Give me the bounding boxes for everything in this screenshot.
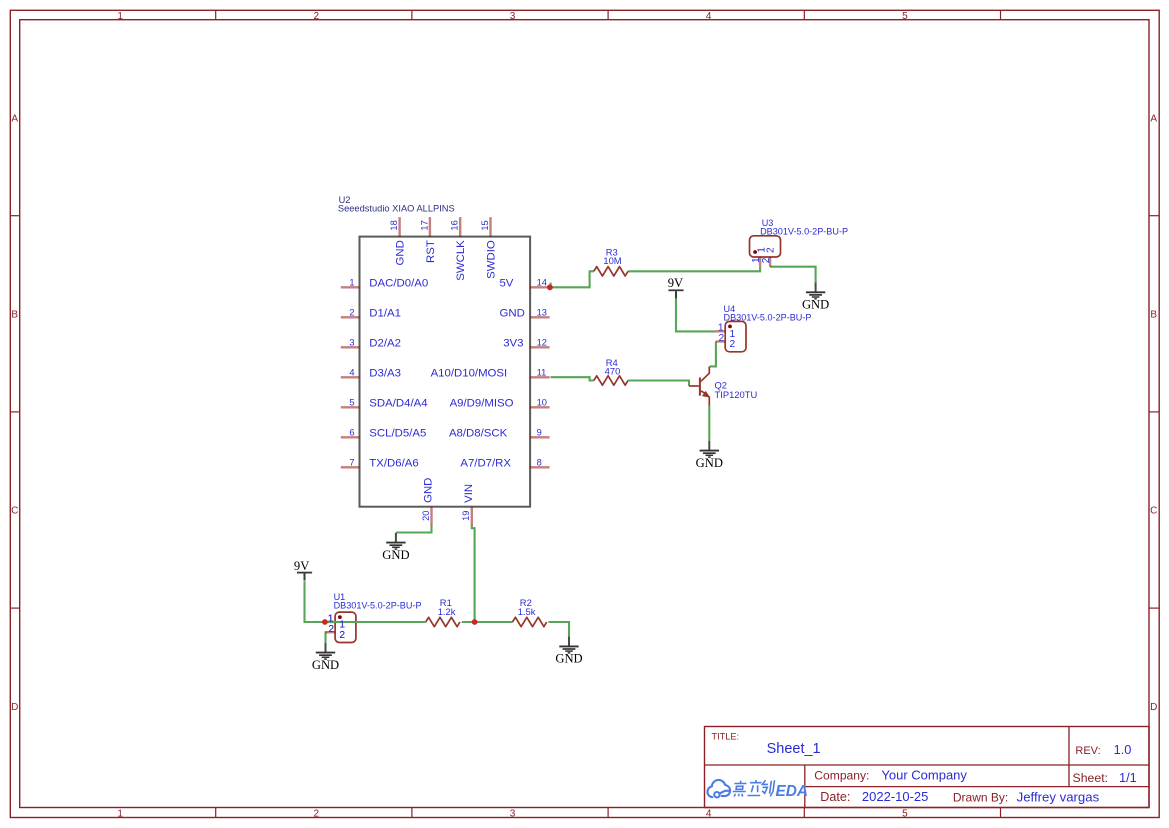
svg-text:Jeffrey vargas: Jeffrey vargas xyxy=(1017,789,1100,804)
svg-text:2: 2 xyxy=(314,11,320,22)
svg-text:4: 4 xyxy=(349,368,354,378)
svg-text:6: 6 xyxy=(349,428,354,438)
svg-text:A8/D8/SCK: A8/D8/SCK xyxy=(449,428,508,440)
svg-text:RST: RST xyxy=(425,240,437,263)
svg-text:11: 11 xyxy=(537,368,547,378)
svg-text:16: 16 xyxy=(450,220,460,230)
svg-text:5: 5 xyxy=(902,809,908,820)
svg-text:1: 1 xyxy=(117,809,123,820)
svg-text:10: 10 xyxy=(537,398,547,408)
svg-text:SDA/D4/A4: SDA/D4/A4 xyxy=(369,398,427,410)
svg-text:2022-10-25: 2022-10-25 xyxy=(862,789,929,804)
svg-text:Your Company: Your Company xyxy=(881,768,967,783)
svg-text:1.2k: 1.2k xyxy=(438,606,456,617)
svg-text:9: 9 xyxy=(537,428,542,438)
svg-text:3: 3 xyxy=(510,11,516,22)
svg-text:8: 8 xyxy=(537,458,542,468)
svg-text:Drawn By:: Drawn By: xyxy=(953,790,1008,804)
svg-text:SCL/D5/A5: SCL/D5/A5 xyxy=(369,428,426,440)
svg-text:TIP120TU: TIP120TU xyxy=(715,389,758,400)
svg-text:DB301V-5.0-2P-BU-P: DB301V-5.0-2P-BU-P xyxy=(760,227,848,237)
svg-text:3: 3 xyxy=(510,809,516,820)
svg-text:SWDIO: SWDIO xyxy=(485,240,497,279)
svg-text:VIN: VIN xyxy=(463,484,475,503)
svg-text:TX/D6/A6: TX/D6/A6 xyxy=(369,458,418,470)
svg-text:9V: 9V xyxy=(668,276,683,290)
svg-text:2: 2 xyxy=(761,257,772,263)
svg-text:B: B xyxy=(1150,310,1157,321)
svg-text:DAC/D0/A0: DAC/D0/A0 xyxy=(369,278,428,290)
svg-text:REV:: REV: xyxy=(1075,745,1100,757)
svg-text:A: A xyxy=(1150,113,1157,124)
svg-text:3: 3 xyxy=(349,338,354,348)
svg-text:5: 5 xyxy=(902,11,908,22)
svg-text:1: 1 xyxy=(349,278,354,288)
svg-text:18: 18 xyxy=(389,220,399,230)
svg-text:DB301V-5.0-2P-BU-P: DB301V-5.0-2P-BU-P xyxy=(334,601,422,611)
svg-text:A: A xyxy=(11,113,18,124)
svg-text:1/1: 1/1 xyxy=(1119,770,1137,785)
svg-text:20: 20 xyxy=(421,511,431,521)
svg-text:1: 1 xyxy=(117,11,123,22)
svg-text:Company:: Company: xyxy=(814,769,869,783)
svg-text:10M: 10M xyxy=(603,255,621,266)
svg-text:13: 13 xyxy=(537,308,547,318)
svg-text:SWCLK: SWCLK xyxy=(455,240,467,281)
svg-text:Seeedstudio XIAO ALLPINS: Seeedstudio XIAO ALLPINS xyxy=(338,203,455,213)
svg-text:TITLE:: TITLE: xyxy=(712,732,740,742)
svg-text:D: D xyxy=(11,702,18,713)
svg-text:1.0: 1.0 xyxy=(1114,742,1132,757)
svg-text:9V: 9V xyxy=(294,559,309,573)
svg-text:D1/A1: D1/A1 xyxy=(369,308,401,320)
svg-text:17: 17 xyxy=(419,220,429,230)
svg-text:19: 19 xyxy=(461,511,471,521)
svg-text:EDA: EDA xyxy=(776,783,809,800)
svg-text:2: 2 xyxy=(314,809,320,820)
svg-text:GND: GND xyxy=(395,240,407,265)
svg-text:Sheet_1: Sheet_1 xyxy=(767,741,821,757)
svg-text:DB301V-5.0-2P-BU-P: DB301V-5.0-2P-BU-P xyxy=(724,312,812,322)
svg-text:2: 2 xyxy=(328,624,334,635)
svg-text:2: 2 xyxy=(349,308,354,318)
svg-text:D2/A2: D2/A2 xyxy=(369,338,401,350)
svg-text:5V: 5V xyxy=(499,278,513,290)
svg-text:470: 470 xyxy=(605,365,621,376)
svg-text:12: 12 xyxy=(537,338,547,348)
svg-text:1: 1 xyxy=(328,613,334,624)
svg-text:4: 4 xyxy=(706,11,712,22)
svg-text:3V3: 3V3 xyxy=(503,338,523,350)
svg-text:A7/D7/RX: A7/D7/RX xyxy=(460,458,511,470)
svg-text:7: 7 xyxy=(349,458,354,468)
svg-text:1.5k: 1.5k xyxy=(518,606,536,617)
svg-text:5: 5 xyxy=(349,398,354,408)
svg-text:15: 15 xyxy=(480,220,490,230)
svg-text:C: C xyxy=(11,506,18,517)
svg-text:2: 2 xyxy=(339,630,345,641)
svg-text:C: C xyxy=(1150,506,1157,517)
svg-text:4: 4 xyxy=(706,809,712,820)
svg-text:B: B xyxy=(11,310,18,321)
svg-text:14: 14 xyxy=(537,278,547,288)
svg-text:2: 2 xyxy=(766,247,777,253)
svg-text:GND: GND xyxy=(423,478,435,503)
svg-text:D3/A3: D3/A3 xyxy=(369,368,401,380)
svg-text:D: D xyxy=(1150,702,1157,713)
svg-text:GND: GND xyxy=(499,308,524,320)
svg-text:A10/D10/MOSI: A10/D10/MOSI xyxy=(431,368,508,380)
svg-text:A9/D9/MISO: A9/D9/MISO xyxy=(450,398,514,410)
svg-text:Sheet:: Sheet: xyxy=(1073,771,1109,785)
svg-text:Date:: Date: xyxy=(820,790,850,804)
